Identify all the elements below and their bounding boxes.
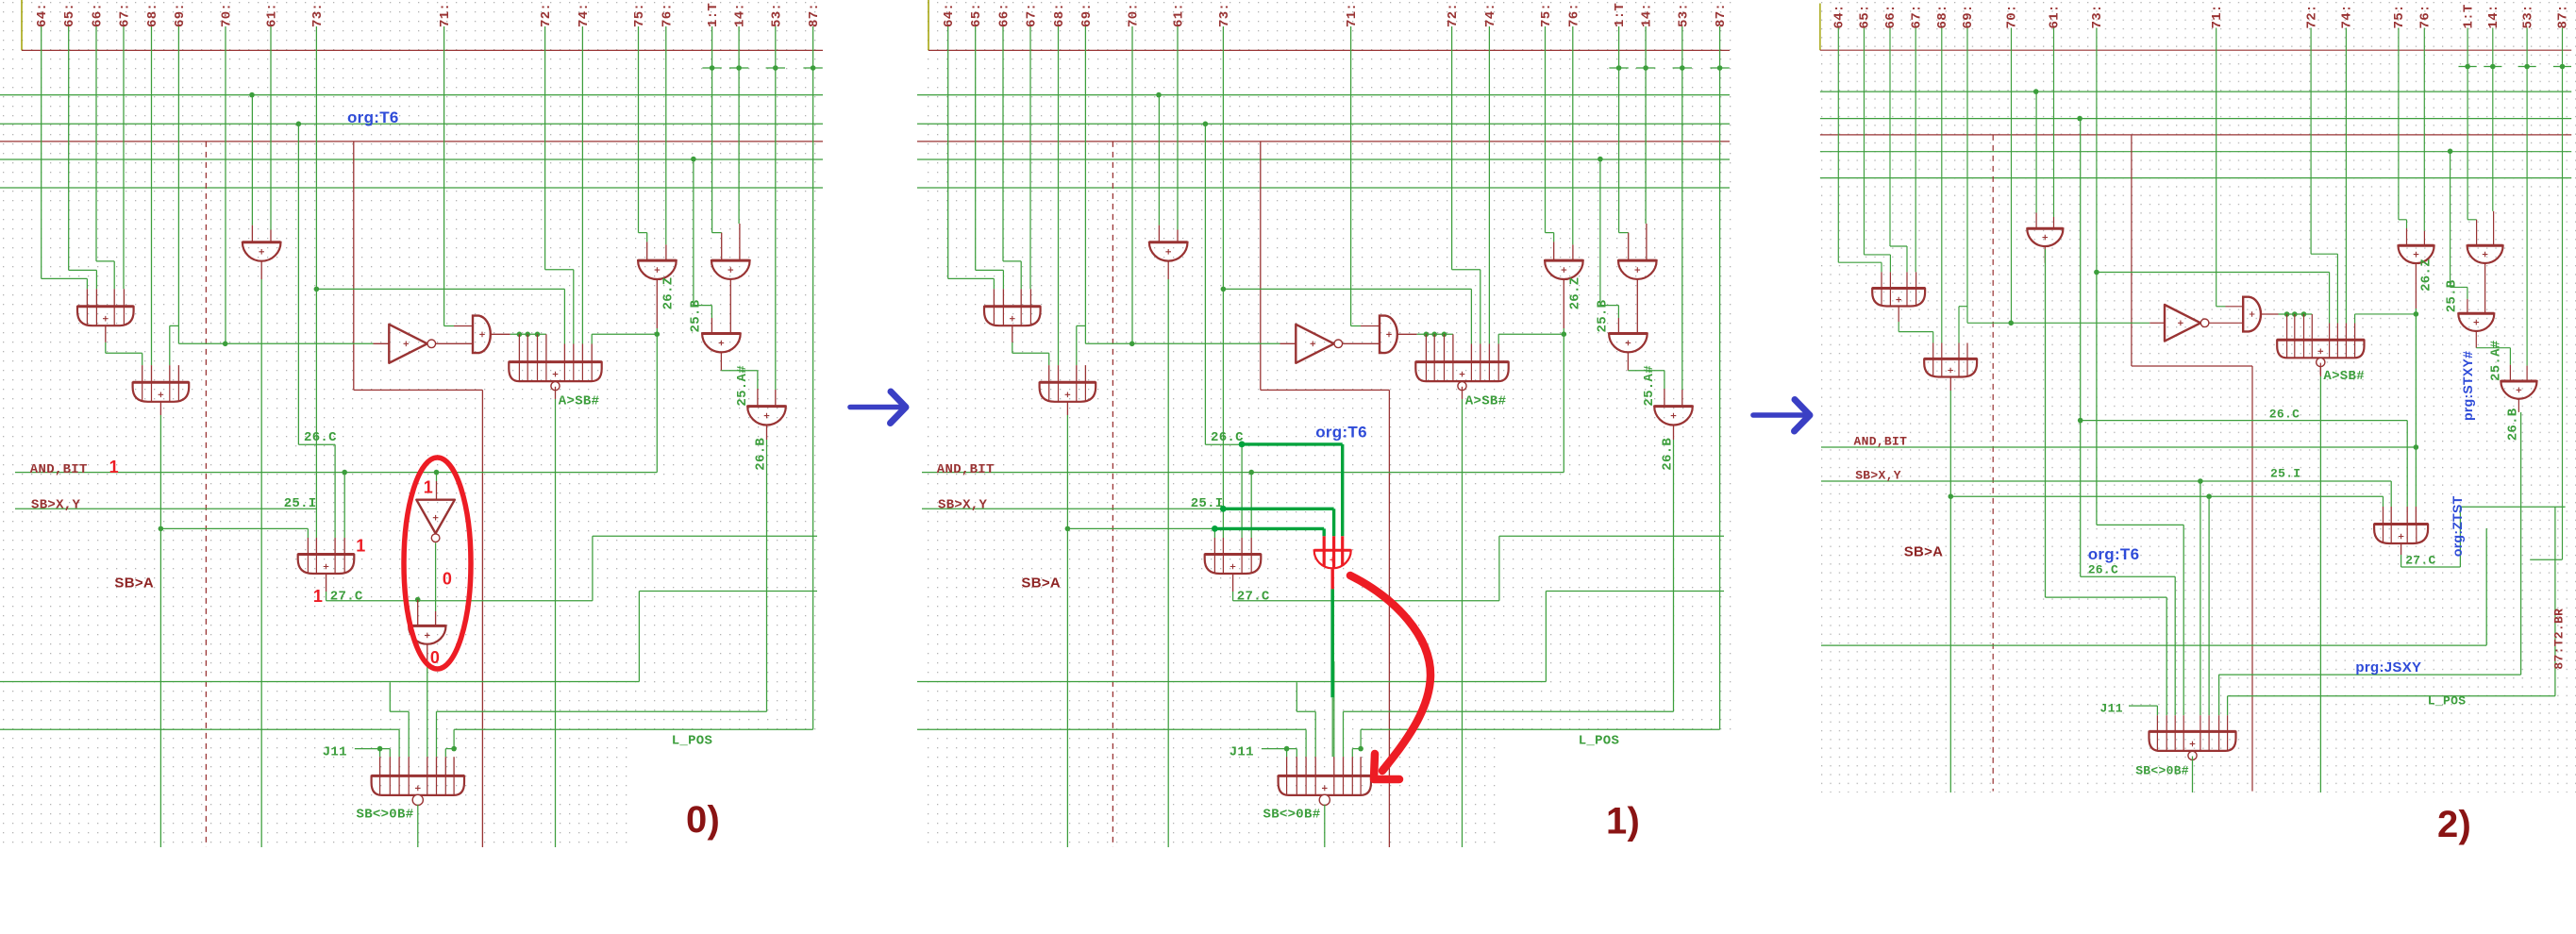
net into A>SB# in8	[2355, 313, 2417, 315]
gate U1 (4-input)	[1872, 289, 1925, 307]
horizontal net y=199.0	[1820, 177, 2571, 179]
bus wire 70:	[1131, 26, 1133, 343]
svg-text:0): 0)	[686, 799, 720, 841]
svg-text:74:: 74:	[2340, 4, 2355, 28]
grid panel 0	[2, 1, 823, 736]
inverter U4	[389, 325, 427, 363]
new gate output highlight	[1330, 569, 1333, 589]
bus rail top (red)	[1820, 49, 2571, 51]
wire 66: jog	[1890, 245, 1907, 247]
gate U3 (2-input)	[243, 242, 281, 261]
grid panel 2	[1819, 1, 2576, 792]
svg-text:L_POS: L_POS	[1579, 733, 1620, 748]
svg-text:74:: 74:	[577, 3, 592, 27]
net to mux inputs	[160, 527, 308, 529]
25.A# output stub	[766, 425, 768, 440]
svg-text:87:: 87:	[2556, 4, 2571, 28]
bus wire 68:	[1941, 28, 1943, 343]
gate U1 (4-input)	[77, 307, 134, 326]
wire 64: jog	[948, 277, 995, 279]
tap tick on bus x=754.6	[1609, 67, 1628, 69]
arrow between panel 1 and 2	[1753, 400, 1810, 432]
gate 26.Z	[1545, 260, 1583, 279]
bus wire 87:	[812, 26, 814, 68]
gate SB<>0B# (8-input)	[2149, 731, 2236, 751]
bus rail top (red)	[928, 49, 1730, 51]
wire 71: into gate U5	[2216, 306, 2226, 308]
wire 65: jog	[69, 269, 97, 271]
net G2 output down + horizontal	[1949, 377, 1951, 392]
svg-text:0: 0	[430, 648, 440, 667]
horizontal net y=199.0	[917, 187, 1730, 189]
bus wire 64:	[947, 26, 949, 278]
junction 267/100	[1156, 92, 1162, 98]
svg-text:1): 1)	[1606, 801, 1640, 842]
svg-text:prg:JSXY: prg:JSXY	[2355, 659, 2421, 675]
net AND,BIT	[922, 472, 1564, 474]
inverter U4	[1296, 325, 1334, 363]
gate A>SB# (8-input)	[1415, 362, 1508, 382]
svg-text:26.Z: 26.Z	[661, 277, 676, 310]
bus wire 66:	[1889, 28, 1891, 247]
bus wire 68:	[151, 26, 153, 365]
svg-text:SB>X,Y: SB>X,Y	[1855, 469, 1901, 483]
bus wire 70:	[225, 26, 226, 343]
svg-text:72:: 72:	[2304, 4, 2319, 28]
bus wire 67:	[1915, 28, 1916, 273]
svg-text:J11: J11	[2100, 702, 2123, 716]
net L_POS lower with tee	[1361, 728, 1720, 730]
junction 267/100	[249, 92, 255, 98]
svg-text:66:: 66:	[1883, 4, 1899, 28]
bus wire 65:	[975, 26, 977, 270]
gate U3 output stub	[2044, 246, 2046, 263]
svg-text:64:: 64:	[35, 3, 50, 27]
tap tick on bus x=861.6	[803, 67, 822, 69]
svg-text:26.B: 26.B	[2505, 408, 2520, 441]
svg-text:26.C: 26.C	[2269, 408, 2300, 422]
svg-text:J11: J11	[323, 744, 347, 759]
svg-text:prg:STXY#: prg:STXY#	[2460, 351, 2475, 421]
junction 267/100	[2033, 89, 2039, 94]
bus wire 76:	[1572, 26, 1574, 244]
bus rail top (red)	[22, 49, 823, 51]
net SB>X,Y	[922, 508, 1223, 509]
horizontal net y=131.3	[917, 123, 1730, 125]
net 73: horizontal	[2097, 272, 2330, 274]
bus wire 64:	[41, 26, 42, 278]
svg-text:65:: 65:	[1858, 4, 1873, 28]
svg-text:27.C: 27.C	[1237, 589, 1270, 604]
26.Z output stub	[2415, 263, 2417, 309]
gate 25.B	[2458, 313, 2494, 331]
svg-text:68:: 68:	[145, 3, 160, 27]
bus wire 76:	[2423, 28, 2425, 231]
inverter U4 output	[436, 342, 473, 344]
svg-text:SB>A: SB>A	[1021, 575, 1061, 591]
wire 75: jog into 26.Z gate	[639, 232, 647, 234]
25.A# output stub	[2517, 399, 2519, 412]
net 73: horizontal	[1223, 288, 1471, 290]
svg-text:26.C: 26.C	[1211, 430, 1244, 445]
svg-text:27.C: 27.C	[2405, 553, 2435, 567]
horizontal net y=169.0	[1820, 151, 2571, 153]
svg-text:14:: 14:	[1640, 3, 1655, 27]
svg-text:71:: 71:	[438, 3, 453, 27]
inverter U4	[2165, 305, 2200, 342]
svg-text:87:: 87:	[807, 3, 822, 27]
svg-text:AND,BIT: AND,BIT	[30, 462, 88, 477]
net AND,BIT	[1821, 446, 2416, 448]
bus wire 65:	[68, 26, 70, 270]
wire 1:T jog into gate	[712, 232, 722, 234]
bus wire 87:	[2562, 28, 2564, 67]
horizontal net y=199.0	[0, 187, 823, 189]
net from junction 267 down	[1158, 95, 1160, 225]
net J11	[2129, 705, 2157, 707]
bus wire 74:	[581, 26, 583, 344]
svg-text:SB>A: SB>A	[114, 575, 154, 591]
gate U5 output	[492, 333, 510, 335]
bus wire 66:	[95, 26, 97, 261]
svg-text:26.Z: 26.Z	[1567, 277, 1582, 310]
bus wire 68:	[1058, 26, 1060, 365]
svg-text:2): 2)	[2437, 804, 2471, 845]
bus wire 75:	[1545, 26, 1547, 233]
mux gate 27.C (4-input)	[298, 555, 355, 575]
bus rail 2 (red)	[0, 141, 823, 142]
bus wire 67:	[1029, 26, 1031, 289]
red stub highlights	[1323, 536, 1326, 566]
svg-text:1:T: 1:T	[1613, 3, 1628, 27]
tap tick on bus x=783.1	[1636, 67, 1655, 69]
net 26.C jog	[1204, 124, 1206, 444]
net 73: down to SB<>0B#	[2096, 273, 2098, 525]
svg-text:70:: 70:	[2005, 4, 2020, 28]
gate U2 (4-input)	[1924, 359, 1977, 376]
horizontal net y=131.3	[0, 123, 823, 125]
net 26.Z output down	[2415, 309, 2417, 507]
gate U1 output	[105, 325, 107, 342]
net 26.B to lower horizontal	[1344, 710, 1674, 712]
horizontal net y=169.0	[917, 158, 1730, 160]
tap tick on bus x=861.6	[1710, 67, 1729, 69]
wire 1:T jog into gate	[2467, 219, 2477, 221]
bus wire 14:	[1645, 26, 1647, 224]
bus wire 14:	[2492, 28, 2494, 211]
wire 69: jog	[170, 325, 179, 326]
svg-text:25.B: 25.B	[2445, 279, 2460, 312]
svg-text:SB<>0B#: SB<>0B#	[2135, 763, 2189, 777]
wire 72: jog	[1452, 269, 1480, 271]
inverter U4 output	[1343, 342, 1380, 344]
bus wire 75:	[2398, 28, 2400, 220]
wire 64: jog	[42, 277, 88, 279]
net U3 output down to SB<>0B#	[2045, 249, 2047, 597]
net right mid	[639, 591, 817, 592]
SB<>0B# output down	[2192, 757, 2194, 793]
bus wire 64:	[1837, 28, 1839, 263]
long net from right corner	[917, 681, 1546, 683]
svg-text:25.I: 25.I	[1191, 496, 1224, 511]
gate 25.A#	[1654, 407, 1693, 425]
gate A>SB# (8-input)	[509, 362, 601, 382]
svg-text:76:: 76:	[660, 3, 675, 27]
tap tick on bus x=821.8	[2518, 66, 2536, 68]
tap tick on bus x=821.8	[766, 67, 785, 69]
net left into SB<>0B#	[0, 728, 399, 730]
dashed boundary	[205, 142, 207, 847]
bus wire 71:	[2216, 28, 2217, 307]
net 70: horizontal to inverter	[1084, 325, 1086, 343]
gate A>SB# (8-input)	[2277, 340, 2364, 358]
bus wire 61:	[1177, 26, 1179, 230]
bus wire 14:	[738, 26, 740, 224]
gate U1 (4-input)	[984, 307, 1041, 326]
bus rail 2 (red)	[917, 141, 1730, 142]
net 26.Z output down	[1563, 328, 1564, 473]
svg-text:53:: 53:	[2520, 4, 2535, 28]
bus wire 53:	[2526, 28, 2528, 366]
gate U3 (2-input)	[2027, 228, 2063, 246]
net L_POS	[2228, 695, 2555, 697]
svg-text:61:: 61:	[265, 3, 280, 27]
net 26.C	[2080, 119, 2082, 576]
svg-text:70:: 70:	[1127, 3, 1142, 27]
A>SB# output stub	[2319, 363, 2321, 375]
svg-text:75:: 75:	[632, 3, 647, 27]
net jog into SB<>0B# in4	[1296, 682, 1297, 711]
bus wire 69:	[1084, 26, 1086, 325]
net 26.B down to SB<>0B#	[2520, 412, 2522, 675]
gate U5 output	[2261, 313, 2279, 315]
gate U3 output stub	[1167, 261, 1169, 279]
wire 66: jog	[1003, 260, 1021, 262]
gate U6 output	[1636, 279, 1638, 333]
svg-text:72:: 72:	[539, 3, 554, 27]
svg-text:53:: 53:	[769, 3, 784, 27]
bus wire 69:	[177, 26, 179, 325]
junction AND,BIT into inverter	[434, 470, 440, 475]
net 73: down to mux	[1222, 289, 1224, 538]
svg-text:J11: J11	[1229, 744, 1254, 759]
svg-text:AND,BIT: AND,BIT	[937, 462, 995, 477]
svg-text:26.C: 26.C	[304, 430, 337, 445]
wire 69: jog	[1959, 306, 1967, 308]
net 26.Z output down	[656, 328, 658, 473]
svg-text:61:: 61:	[2048, 4, 2063, 28]
bus wire 61:	[270, 26, 272, 230]
wire 1:T jog into gate	[1619, 232, 1629, 234]
svg-text:68:: 68:	[1052, 3, 1067, 27]
long net from right corner	[0, 681, 639, 683]
net A>SB# output down	[555, 399, 557, 847]
svg-text:67:: 67:	[118, 3, 133, 27]
wire 65: jog	[976, 269, 1004, 271]
horizontal net y=169.0	[0, 158, 823, 160]
26.Z output stub	[1563, 279, 1564, 328]
net into SB<>0B# in5	[427, 661, 428, 757]
svg-text:25.A#: 25.A#	[735, 365, 750, 407]
net to mux inputs	[1067, 527, 1214, 529]
bus wire 72:	[2310, 28, 2312, 255]
gate U6 (1:T,14:)	[1618, 260, 1657, 279]
wire 72: jog	[2311, 253, 2337, 255]
bus wire 72:	[1451, 26, 1453, 270]
bus wire 87:	[1719, 26, 1721, 68]
inverter U4 output	[2209, 322, 2244, 324]
svg-text:A>SB#: A>SB#	[1465, 394, 1507, 409]
svg-text:25.A#: 25.A#	[2488, 340, 2503, 381]
grid panel 1	[925, 1, 1734, 736]
gate U2 output down	[1066, 402, 1068, 415]
bus 87: lower run	[1719, 68, 1721, 729]
gate U1 output	[1898, 307, 1899, 323]
svg-text:65:: 65:	[969, 3, 984, 27]
wire 71: into gate U5	[444, 325, 454, 327]
net from junction 734 into 25.B	[693, 159, 694, 306]
net 70: horizontal to inverter	[1966, 307, 1968, 324]
26.Z output stub	[656, 279, 658, 328]
net A>SB# output down	[1462, 399, 1464, 847]
net left into SB<>0B#	[917, 728, 1306, 730]
bus wire 53:	[775, 26, 777, 390]
A>SB# output stub	[1462, 387, 1464, 399]
svg-text:1: 1	[313, 587, 323, 606]
net from junction 734 into 25.B	[2450, 151, 2451, 287]
gate 26.Z	[2399, 245, 2434, 263]
svg-text:1:T: 1:T	[2461, 4, 2476, 28]
SB<>0B# output down	[417, 805, 419, 847]
svg-text:67:: 67:	[1025, 3, 1040, 27]
svg-text:69:: 69:	[1961, 4, 1976, 28]
net 73: horizontal	[316, 288, 564, 290]
gate U8 (2-input)	[409, 625, 445, 643]
net 26.C jog	[297, 124, 299, 444]
net A>SB# output down	[2319, 376, 2321, 792]
gate U6 output	[2484, 263, 2486, 313]
wire 71: into gate U5	[1351, 325, 1361, 327]
svg-text:64:: 64:	[942, 3, 957, 27]
svg-text:0: 0	[443, 569, 452, 588]
net AND,BIT tap down	[343, 473, 345, 538]
net 26.B down	[1673, 440, 1675, 711]
gate 26.Z	[638, 260, 677, 279]
svg-text:A>SB#: A>SB#	[559, 394, 600, 409]
bus rail 2 (red)	[1820, 134, 2571, 136]
junction 316/131	[1203, 122, 1209, 127]
svg-text:75:: 75:	[1539, 3, 1554, 27]
net into A>SB# in8	[1498, 333, 1564, 335]
svg-text:1: 1	[424, 478, 433, 497]
svg-text:1:T: 1:T	[706, 3, 721, 27]
gate U2 (4-input)	[133, 382, 190, 402]
net U3 output down	[1167, 279, 1169, 847]
svg-text:72:: 72:	[1446, 3, 1461, 27]
svg-text:14:: 14:	[733, 3, 748, 27]
gate 25.A#	[747, 407, 786, 425]
inverter U7 (down)	[416, 500, 455, 534]
gate SB<>0B# (8-input)	[1279, 776, 1371, 795]
svg-text:53:: 53:	[1676, 3, 1691, 27]
svg-text:87:T2.BR: 87:T2.BR	[2552, 609, 2567, 670]
wire 64: jog	[1838, 261, 1882, 263]
25.B output jog	[2475, 331, 2477, 348]
svg-text:75:: 75:	[2392, 4, 2407, 28]
gate U6 (1:T,14:)	[711, 260, 750, 279]
bus wire 66:	[1002, 26, 1004, 261]
wire 53: stub into 25.A#	[2526, 366, 2528, 381]
svg-text:L_POS: L_POS	[2428, 694, 2467, 709]
red net from rail to bottom	[353, 142, 355, 391]
bus wire 67:	[123, 26, 125, 289]
svg-text:A>SB#: A>SB#	[2323, 369, 2365, 384]
svg-text:25.I: 25.I	[2270, 467, 2300, 481]
gate 27.C right	[2374, 525, 2428, 544]
svg-text:org:ZTST: org:ZTST	[2450, 495, 2465, 557]
annotation ellipse (red)	[404, 458, 471, 669]
wire 75: jog into 26.Z gate	[1546, 232, 1554, 234]
A>SB# output stub	[555, 387, 557, 399]
bus wire 53:	[1681, 26, 1683, 390]
bus wire 73:	[2096, 28, 2098, 273]
bus wire 1:T	[1618, 26, 1620, 233]
net L_POS lower with tee	[454, 728, 812, 730]
svg-text:L_POS: L_POS	[672, 733, 713, 748]
bus wire 72:	[544, 26, 546, 270]
bus wire 76:	[665, 26, 667, 244]
svg-text:73:: 73:	[2090, 4, 2105, 28]
net J11	[1262, 748, 1296, 750]
mux output to 27.C	[1232, 574, 1234, 592]
bus wire 73:	[315, 26, 317, 289]
highlight net to new gate in1	[1214, 527, 1324, 530]
25.A# output stub	[1673, 425, 1675, 440]
wire 53: stub into 25.A#	[775, 390, 777, 407]
wire 69: jog	[1077, 325, 1086, 326]
svg-text:SB>X,Y: SB>X,Y	[938, 498, 988, 513]
wire 65: jog	[1865, 254, 1891, 256]
mux output to 27.C	[326, 574, 327, 592]
gate SB<>0B# (8-input)	[372, 776, 464, 795]
gate U3 (2-input)	[1149, 242, 1188, 261]
bus wire 65:	[1864, 28, 1865, 255]
net SB>X,Y	[15, 508, 316, 509]
net right mid	[1546, 591, 1724, 592]
svg-text:67:: 67:	[1909, 4, 1924, 28]
highlight net 26.C to new gate	[1242, 442, 1343, 445]
net 26.B to lower horizontal	[437, 710, 767, 712]
junction 316/131	[296, 122, 302, 127]
tap tick on bus x=783.1	[729, 67, 748, 69]
horizontal net y=100.6	[1820, 91, 2571, 92]
svg-text:65:: 65:	[62, 3, 77, 27]
bus 87: lower run	[2562, 67, 2564, 560]
gate 25.A#	[2501, 381, 2536, 399]
long net	[1821, 644, 2486, 646]
red net from rail to bottom	[2131, 135, 2133, 366]
gate U3 output stub	[260, 261, 262, 279]
and-gate U5	[1380, 316, 1397, 354]
highlight net SB>X,Y to new gate	[1223, 508, 1333, 510]
net from junction 734 into 25.B	[1599, 159, 1601, 306]
net from junction 267 down	[2035, 92, 2037, 212]
svg-text:26.Z: 26.Z	[2419, 259, 2434, 292]
bus wire 74:	[2345, 28, 2347, 324]
tap tick on bus x=783.1	[2484, 66, 2501, 68]
bus wire 71:	[1350, 26, 1352, 326]
net J11	[355, 748, 390, 750]
